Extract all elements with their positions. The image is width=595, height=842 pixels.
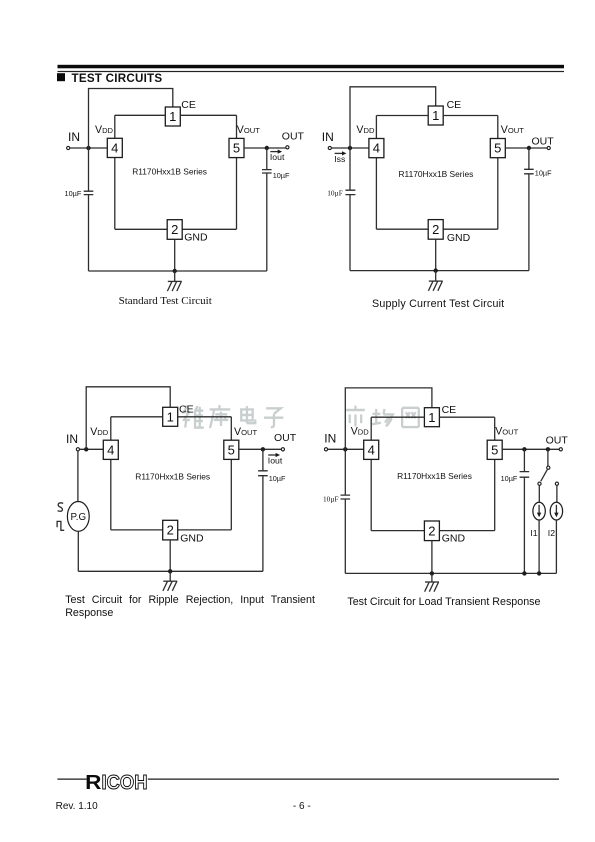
wire IN to pin 4 (circuit B) bbox=[331, 147, 369, 149]
svg-text:I2: I2 bbox=[548, 528, 555, 538]
junction ground node (circuit C) bbox=[168, 569, 172, 573]
capacitor COUT 10µF (circuit B) bbox=[524, 169, 534, 174]
svg-text:5: 5 bbox=[491, 442, 498, 457]
ground (circuit B) bbox=[428, 271, 442, 291]
wire CE tie to VIN (circuit C) bbox=[86, 387, 170, 450]
wire ground rail (circuit B) bbox=[350, 270, 529, 272]
wire top rail (circuit B) bbox=[376, 115, 497, 117]
IC U2 pin 5 (VOUT) box bbox=[490, 139, 505, 158]
wire left rail (circuit D) bbox=[370, 417, 372, 530]
svg-text:GND: GND bbox=[184, 232, 208, 244]
current source I1 bbox=[533, 502, 545, 520]
capacitor COUT 10µF (circuit D) bbox=[520, 472, 530, 478]
svg-text:TEST CIRCUITS: TEST CIRCUITS bbox=[72, 72, 163, 85]
svg-text:Iout: Iout bbox=[270, 152, 285, 162]
capacitor COUT 10µF (circuit A) bbox=[262, 170, 272, 173]
section marker square bbox=[57, 73, 65, 81]
current arrow Iout (circuit A) bbox=[270, 150, 285, 163]
svg-text:5: 5 bbox=[494, 141, 501, 156]
svg-text:2: 2 bbox=[428, 523, 435, 538]
wire right rail (circuit C) bbox=[230, 417, 232, 530]
watermark char 3 bbox=[241, 406, 255, 423]
IC U1 pin 5 (VOUT) box (circuit A) bbox=[229, 138, 244, 157]
wire CE tie to VIN (circuit B) bbox=[350, 87, 436, 148]
wire CIN to ground rail bbox=[88, 195, 90, 271]
svg-text:10µF: 10µF bbox=[269, 474, 286, 483]
svg-text:VOUT: VOUT bbox=[495, 425, 518, 437]
input terminal IN (circuit B) bbox=[328, 146, 331, 149]
input terminal IN (circuit D) bbox=[324, 448, 327, 451]
wire pin 5 to OUT bbox=[244, 147, 286, 149]
svg-text:R1170Hxx1B Series: R1170Hxx1B Series bbox=[397, 471, 472, 481]
svg-text:OUT: OUT bbox=[274, 432, 297, 444]
svg-text:VDD: VDD bbox=[95, 124, 114, 136]
header thick rule bbox=[58, 65, 565, 69]
current arrow Iout (circuit C) bbox=[268, 453, 283, 466]
wire left rail (circuit A) bbox=[114, 115, 116, 229]
wire top rail (circuit C) bbox=[111, 416, 232, 418]
header thin rule bbox=[58, 71, 565, 72]
wire COUT to ground rail (circuit B) bbox=[528, 174, 530, 271]
wire right rail (circuit D) bbox=[494, 417, 496, 530]
svg-text:10µF: 10µF bbox=[535, 169, 552, 178]
wire pin 5 to OUT (circuit D) bbox=[502, 448, 559, 450]
wire output node to COUT (circuit B) bbox=[528, 148, 530, 169]
wire IN to pin 4 (circuit C) bbox=[80, 448, 104, 450]
IC U1 R1170Hxx1B pin 1 (CE) box bbox=[165, 107, 180, 126]
svg-text:Supply Current Test Circuit: Supply Current Test Circuit bbox=[372, 298, 504, 310]
wire ground rail (circuit C) bbox=[78, 570, 263, 572]
svg-text:OUT: OUT bbox=[532, 135, 555, 147]
svg-text:5: 5 bbox=[228, 442, 235, 457]
svg-text:VOUT: VOUT bbox=[234, 426, 257, 438]
square wave symbol bbox=[57, 521, 64, 530]
capacitor COUT 10µF (circuit C) bbox=[258, 471, 268, 476]
wire IN to pulse generator bbox=[77, 451, 79, 502]
wire bottom rail (circuit D) bbox=[371, 530, 495, 532]
svg-text:10µF: 10µF bbox=[501, 474, 518, 483]
svg-text:VDD: VDD bbox=[351, 425, 370, 437]
watermark char 6 bbox=[372, 409, 393, 427]
IC U2 pin 4 (VDD) box bbox=[369, 139, 384, 158]
output terminal OUT (circuit C) bbox=[281, 448, 284, 451]
wire switch contact to current source I2 bbox=[556, 485, 558, 502]
svg-text:4: 4 bbox=[368, 442, 375, 457]
IC U4 pin 4 (VDD) box bbox=[364, 440, 379, 459]
svg-text:CE: CE bbox=[179, 404, 194, 416]
svg-text:R1170Hxx1B Series: R1170Hxx1B Series bbox=[399, 169, 474, 179]
wire pin 2 to ground rail bbox=[174, 239, 176, 271]
svg-text:1: 1 bbox=[167, 409, 174, 424]
junction output node (circuit A) bbox=[265, 146, 269, 150]
svg-text:2: 2 bbox=[432, 222, 439, 237]
junction input node (circuit A) bbox=[86, 146, 90, 150]
svg-text:OUT: OUT bbox=[546, 435, 569, 447]
svg-text:10µF: 10µF bbox=[273, 171, 290, 180]
wire CIN to ground rail (circuit D) bbox=[344, 499, 346, 573]
output terminal OUT (circuit D) bbox=[559, 448, 562, 451]
svg-text:IN: IN bbox=[324, 432, 336, 446]
svg-text:CE: CE bbox=[181, 99, 196, 111]
svg-text:R1170Hxx1B Series: R1170Hxx1B Series bbox=[135, 472, 210, 482]
input terminal IN (circuit A) bbox=[67, 146, 70, 149]
svg-text:VDD: VDD bbox=[356, 124, 375, 136]
svg-text:Standard Test Circuit: Standard Test Circuit bbox=[119, 295, 212, 307]
svg-text:Iss: Iss bbox=[334, 154, 346, 164]
wire bottom rail (circuit B) bbox=[376, 228, 497, 230]
current source I2 bbox=[550, 502, 562, 520]
junction input node (circuit B) bbox=[348, 146, 352, 150]
watermark char 1 bbox=[184, 406, 204, 428]
junction switch node (circuit D) bbox=[546, 447, 550, 451]
svg-text:1: 1 bbox=[169, 109, 176, 124]
svg-text:1: 1 bbox=[432, 108, 439, 123]
svg-text:Iout: Iout bbox=[268, 455, 283, 465]
svg-text:CE: CE bbox=[442, 404, 457, 416]
capacitor CIN 10µF (circuit A) bbox=[84, 191, 94, 194]
sine wave symbol bbox=[58, 503, 64, 511]
capacitor CIN 10µF (circuit D) bbox=[341, 495, 351, 499]
svg-text:ICOH: ICOH bbox=[102, 771, 148, 794]
wire bottom rail (circuit C) bbox=[111, 529, 232, 531]
wire ground rail (circuit D) bbox=[345, 572, 556, 574]
IC U3 R1170Hxx1B pin 1 (CE) box bbox=[163, 407, 178, 426]
svg-text:10µF: 10µF bbox=[323, 494, 339, 503]
svg-text:2: 2 bbox=[171, 222, 178, 237]
junction ground node (circuit A) bbox=[173, 269, 177, 273]
wire pin 2 to ground rail (circuit D) bbox=[431, 541, 433, 574]
RICOH logo bbox=[85, 771, 147, 794]
svg-text:10µF: 10µF bbox=[65, 189, 82, 198]
wire CIN to ground rail (circuit B) bbox=[349, 195, 351, 271]
IC U1 pin 4 (VDD) box (circuit A) bbox=[107, 138, 122, 157]
IC U2 R1170Hxx1B pin 1 (CE) box bbox=[428, 106, 443, 125]
svg-text:Test Circuit for Load Transien: Test Circuit for Load Transient Response bbox=[347, 596, 540, 608]
current arrow Iss (circuit B) bbox=[334, 151, 346, 164]
wire pin 5 to OUT (circuit C) bbox=[239, 448, 281, 450]
svg-text:- 6 -: - 6 - bbox=[293, 801, 311, 812]
watermark char 2 bbox=[210, 405, 231, 428]
watermark char 7 bbox=[402, 408, 419, 427]
wire switch node to switch contact bbox=[547, 449, 549, 466]
watermark char 5 bbox=[346, 406, 365, 427]
wire COUT to ground rail (circuit D) bbox=[523, 477, 525, 573]
svg-text:4: 4 bbox=[373, 141, 380, 156]
wire I1 to ground rail bbox=[538, 520, 540, 573]
svg-text:CE: CE bbox=[447, 99, 462, 111]
svg-text:Response: Response bbox=[65, 607, 113, 619]
wire pin 2 to ground rail (circuit C) bbox=[169, 540, 171, 571]
svg-text:GND: GND bbox=[180, 532, 204, 544]
watermark char 4 bbox=[264, 408, 283, 427]
svg-text:5: 5 bbox=[233, 141, 240, 156]
pulse generator P.G bbox=[67, 502, 89, 532]
ground (circuit A) bbox=[167, 271, 181, 291]
junction output node (circuit C) bbox=[261, 447, 265, 451]
svg-text:10µF: 10µF bbox=[327, 188, 343, 197]
wire CE tie to VIN (circuit D) bbox=[345, 388, 432, 449]
svg-text:1: 1 bbox=[428, 410, 435, 425]
svg-text:IN: IN bbox=[322, 130, 334, 144]
svg-text:4: 4 bbox=[107, 442, 114, 457]
IC U3 pin 2 (GND) box bbox=[163, 520, 178, 540]
svg-text:2: 2 bbox=[167, 523, 174, 538]
IC U3 pin 5 (VOUT) box bbox=[224, 440, 239, 459]
junction ground node (circuit B) bbox=[434, 268, 438, 272]
junction COUT at ground rail (circuit D) bbox=[522, 571, 526, 575]
svg-text:R: R bbox=[85, 771, 101, 794]
wire top rail (circuit D) bbox=[371, 416, 495, 418]
wire CE tie to VIN bbox=[89, 89, 173, 149]
wire pin 2 to ground rail (circuit B) bbox=[435, 239, 437, 270]
wire pin 5 to OUT (circuit B) bbox=[505, 147, 547, 149]
junction output node (circuit D) bbox=[522, 447, 526, 451]
output terminal OUT (circuit A) bbox=[286, 146, 289, 149]
wire IN to pin 4 (circuit D) bbox=[328, 448, 364, 450]
wire COUT to ground rail (circuit C) bbox=[262, 476, 264, 572]
wire left rail (circuit C) bbox=[110, 417, 112, 530]
svg-text:GND: GND bbox=[442, 532, 466, 544]
IC U4 pin 2 (GND) box bbox=[424, 521, 439, 541]
svg-text:P.G: P.G bbox=[70, 512, 86, 523]
IC U2 pin 2 (GND) box bbox=[428, 220, 443, 240]
svg-text:4: 4 bbox=[111, 141, 118, 156]
svg-text:IN: IN bbox=[68, 130, 80, 144]
wire pulse generator to ground rail bbox=[77, 531, 79, 571]
junction input node (circuit C) bbox=[84, 447, 88, 451]
wire I2 to ground rail bbox=[555, 520, 557, 573]
switch SW1 bbox=[538, 466, 559, 485]
svg-text:VOUT: VOUT bbox=[501, 124, 524, 136]
wire input node to CIN (circuit B) bbox=[349, 148, 351, 190]
wire right rail (circuit B) bbox=[497, 116, 499, 230]
wire input node to CIN bbox=[88, 148, 90, 191]
junction input node (circuit D) bbox=[343, 447, 347, 451]
junction I1 at ground rail (circuit D) bbox=[537, 571, 541, 575]
wire IN to pin 4 bbox=[70, 147, 108, 149]
wire output node to COUT (circuit C) bbox=[262, 449, 264, 471]
ground (circuit C) bbox=[163, 571, 177, 591]
ground (circuit D) bbox=[425, 573, 439, 591]
svg-text:VDD: VDD bbox=[90, 426, 109, 438]
wire ground rail (circuit A) bbox=[89, 270, 267, 272]
junction ground node (circuit D) bbox=[430, 571, 434, 575]
wire COUT to ground rail bbox=[266, 173, 268, 271]
svg-text:VOUT: VOUT bbox=[237, 124, 260, 136]
wire output node to COUT (circuit D) bbox=[523, 449, 525, 471]
IC U3 pin 4 (VDD) box bbox=[103, 440, 118, 459]
svg-text:I1: I1 bbox=[530, 528, 537, 538]
output terminal OUT (circuit B) bbox=[547, 146, 550, 149]
svg-text:OUT: OUT bbox=[282, 131, 305, 143]
wire right rail (circuit A) bbox=[236, 115, 238, 229]
wire switch to current source I1 bbox=[538, 485, 540, 502]
wire bottom rail (circuit A) bbox=[115, 228, 237, 230]
footer rule right bbox=[148, 778, 559, 780]
svg-text:IN: IN bbox=[66, 432, 78, 446]
svg-text:Rev. 1.10: Rev. 1.10 bbox=[56, 801, 98, 812]
input terminal IN (circuit C) bbox=[76, 448, 79, 451]
footer rule left bbox=[57, 778, 86, 780]
svg-text:GND: GND bbox=[447, 232, 471, 244]
IC U4 pin 5 (VOUT) box bbox=[487, 440, 502, 459]
wire left rail (circuit B) bbox=[375, 116, 377, 230]
svg-text:Test Circuit for Ripple Reject: Test Circuit for Ripple Rejection, Input… bbox=[65, 594, 315, 606]
junction output node (circuit B) bbox=[527, 146, 531, 150]
capacitor CIN 10µF (circuit B) bbox=[345, 190, 355, 194]
svg-text:R1170Hxx1B Series: R1170Hxx1B Series bbox=[132, 166, 207, 176]
IC U4 R1170Hxx1B pin 1 (CE) box bbox=[424, 408, 439, 427]
IC U1 pin 2 (GND) box (circuit A) bbox=[167, 220, 182, 240]
wire output node to COUT bbox=[266, 148, 268, 170]
wire input node to CIN (circuit D) bbox=[344, 449, 346, 495]
wire top rail (circuit A) bbox=[115, 114, 237, 116]
